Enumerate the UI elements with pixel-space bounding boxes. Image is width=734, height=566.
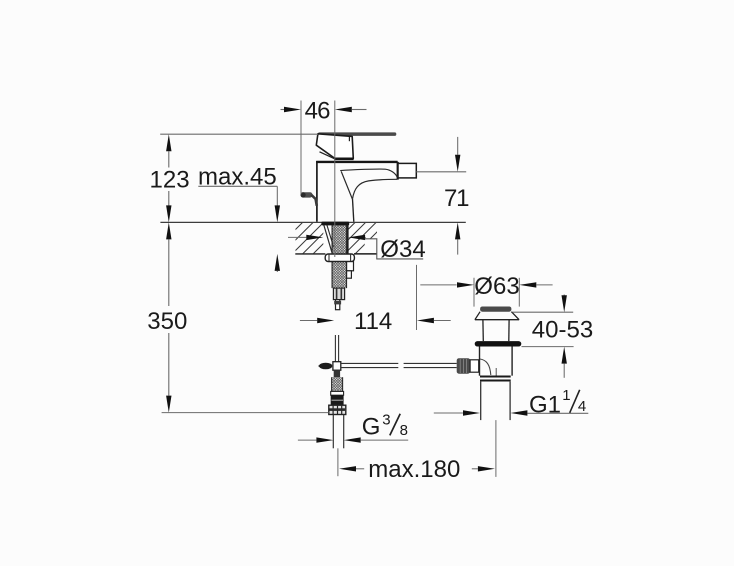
svg-text:max.180: max.180 [368,456,460,483]
svg-text:114: 114 [354,308,392,335]
svg-text:4: 4 [578,398,586,415]
svg-text:350: 350 [147,308,187,335]
svg-text:G1: G1 [529,392,561,419]
svg-text:G: G [362,414,381,441]
svg-text:1: 1 [562,387,570,404]
svg-text:46: 46 [305,98,331,125]
svg-text:123: 123 [150,167,190,194]
svg-text:Ø63: Ø63 [474,273,519,300]
svg-text:8: 8 [400,422,408,439]
svg-text:71: 71 [444,185,469,212]
svg-text:max.45: max.45 [198,164,277,191]
svg-text:40-53: 40-53 [532,317,593,344]
svg-text:Ø34: Ø34 [380,236,425,263]
svg-text:3: 3 [382,412,390,429]
